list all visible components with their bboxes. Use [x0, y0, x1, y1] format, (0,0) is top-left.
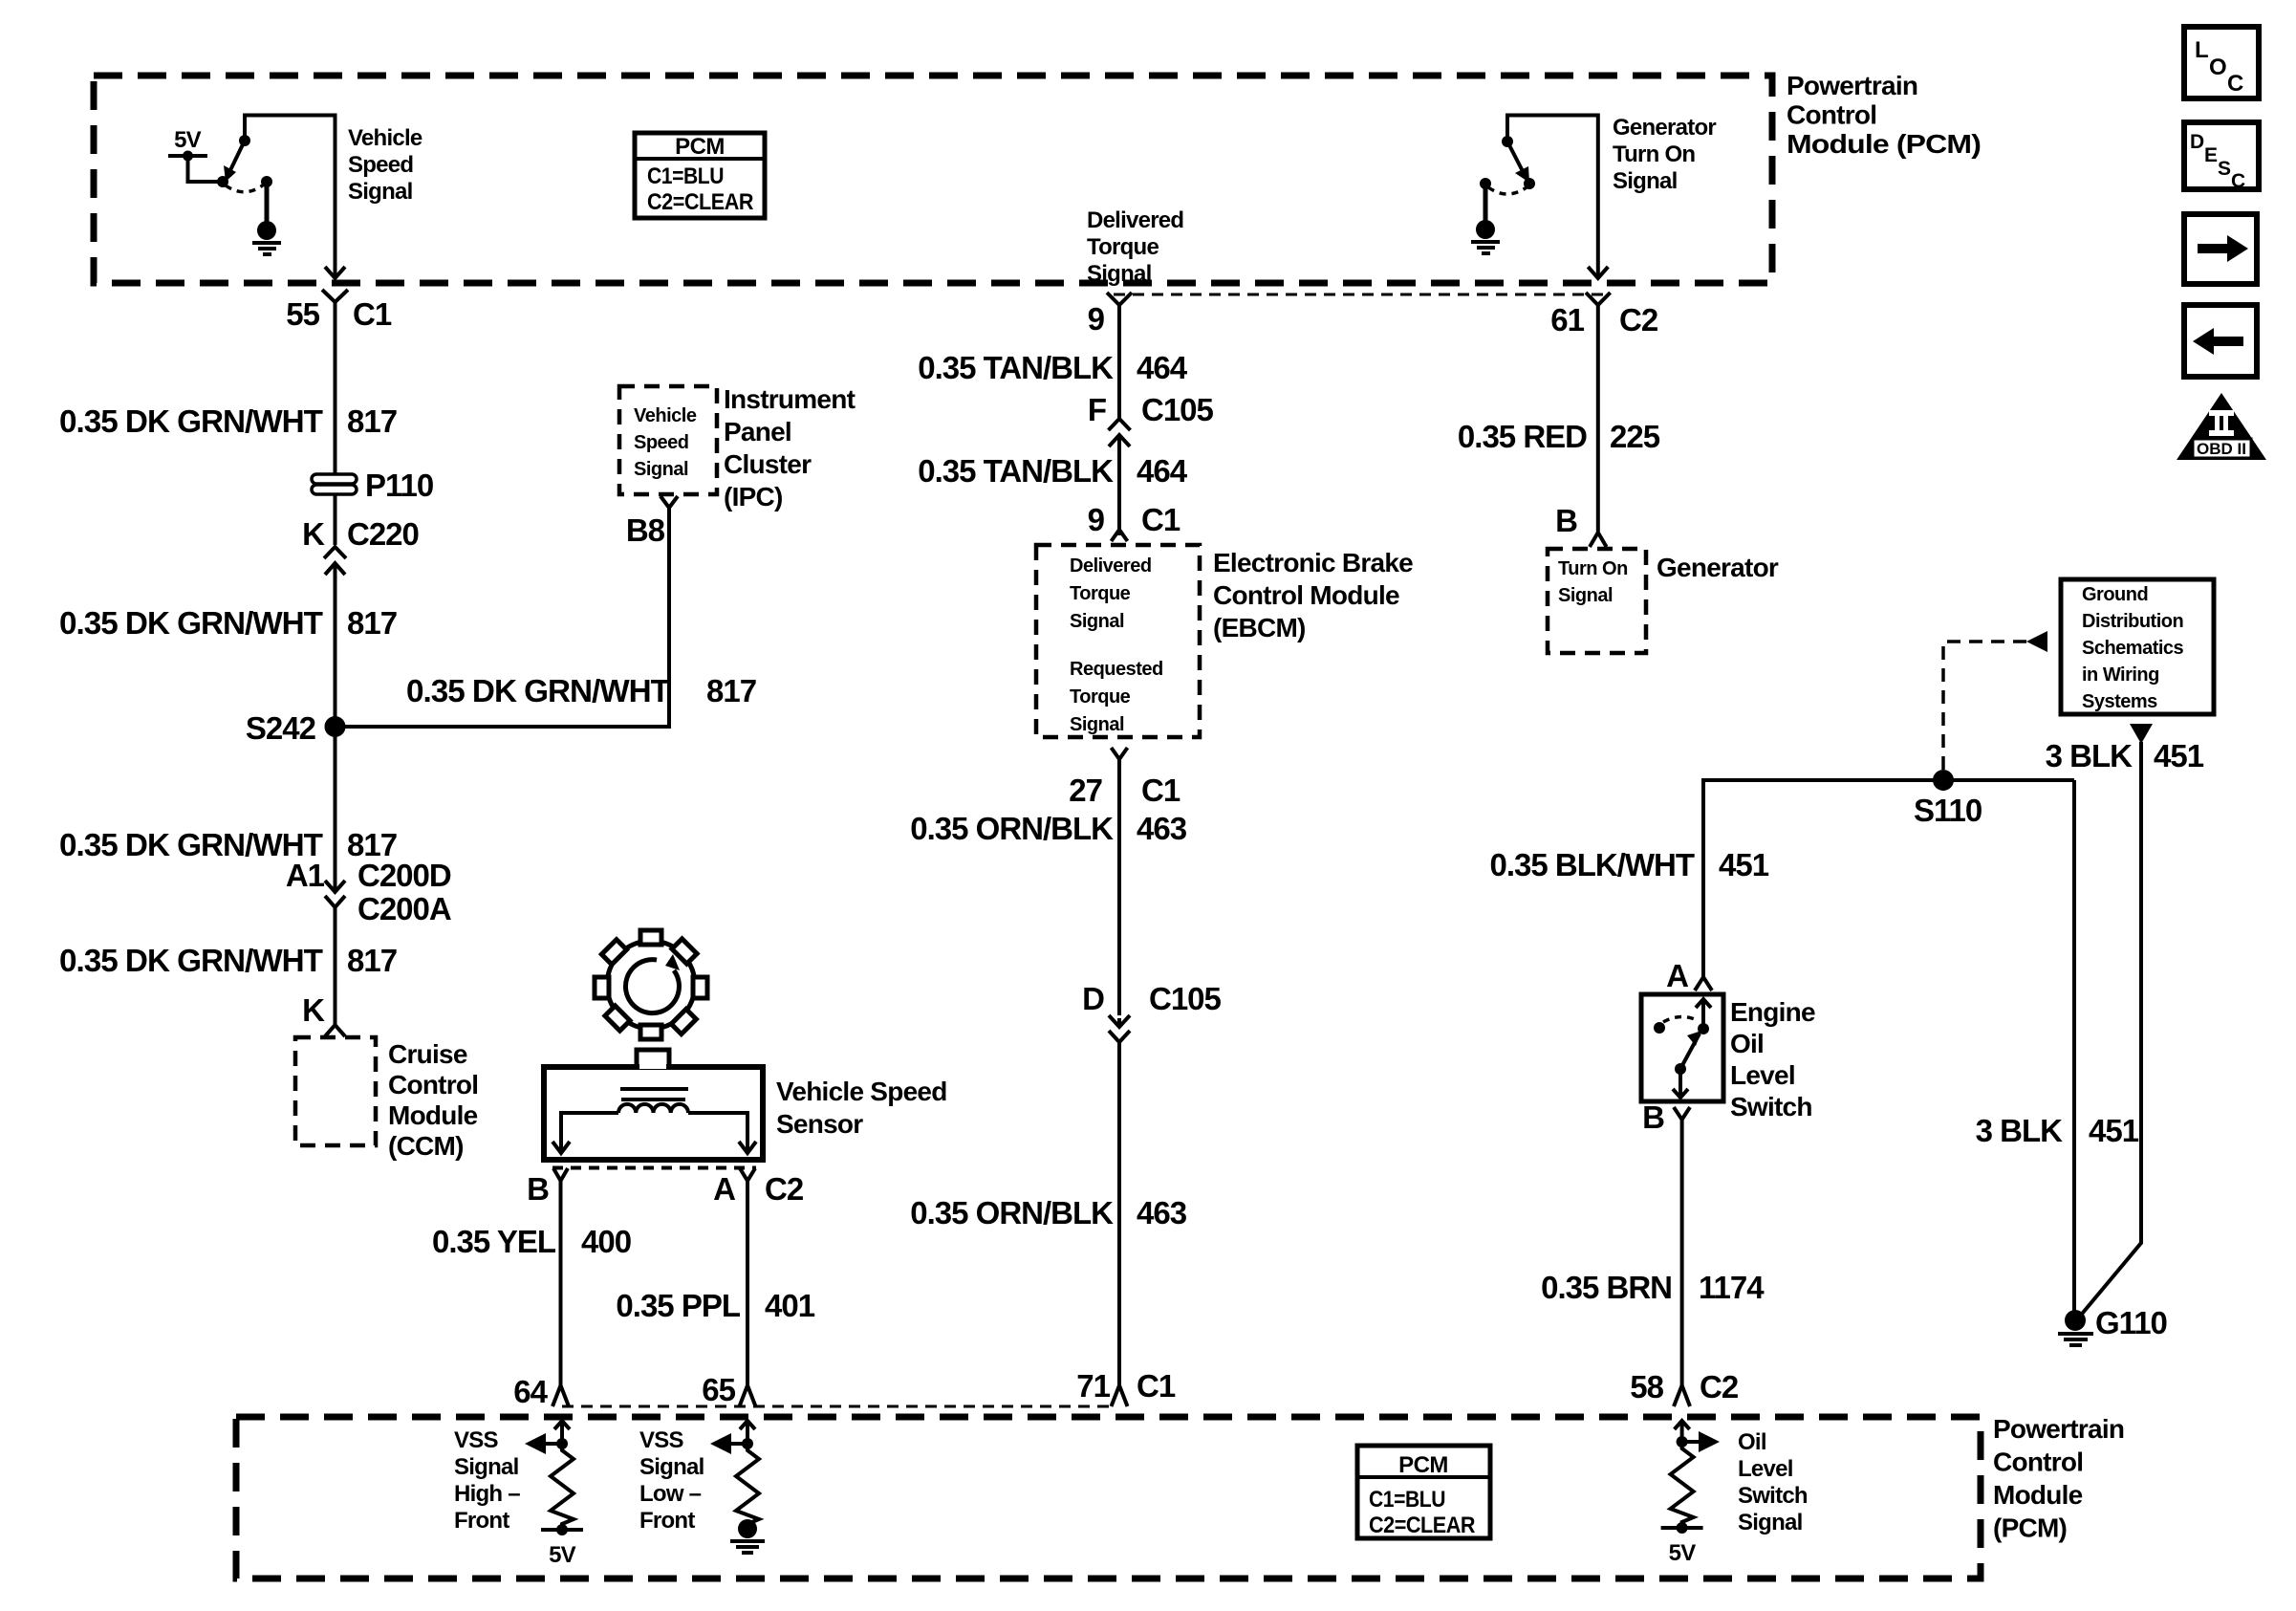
sensor internal wires with arrows — [552, 1113, 756, 1153]
grommet P110 — [312, 468, 433, 503]
5V reference (64) — [541, 1524, 583, 1568]
svg-text:0.35 RED: 0.35 RED — [1458, 419, 1587, 454]
svg-text:451: 451 — [2154, 738, 2204, 773]
svg-text:0.35 DK GRN/WHT: 0.35 DK GRN/WHT — [59, 943, 323, 978]
svg-text:400: 400 — [581, 1224, 631, 1259]
ground (VSS low) — [730, 1519, 765, 1553]
svg-text:VehicleSpeedSignal: VehicleSpeedSignal — [348, 125, 422, 205]
icon left-arrow button — [2184, 305, 2257, 377]
svg-text:3 BLK: 3 BLK — [2046, 738, 2134, 773]
svg-text:64: 64 — [513, 1374, 548, 1409]
svg-text:C2: C2 — [1619, 302, 1658, 337]
svg-text:C220: C220 — [347, 516, 419, 552]
svg-text:9: 9 — [1088, 301, 1105, 337]
svg-text:463: 463 — [1137, 1195, 1187, 1230]
svg-text:225: 225 — [1610, 419, 1660, 454]
connector fork B8 — [661, 496, 678, 508]
connector fork 27/C1 (EBCM bottom) — [1112, 748, 1128, 759]
wire 817 segment 5 — [334, 905, 337, 1025]
connector fork 9 (PCM) — [1107, 293, 1132, 305]
PCM top dashed box — [94, 76, 1772, 283]
svg-text:E: E — [2204, 144, 2218, 166]
svg-text:C: C — [2227, 71, 2243, 97]
wire 1174 — [1680, 1120, 1684, 1385]
svg-text:0.35 PPL: 0.35 PPL — [616, 1288, 740, 1323]
svg-text:D: D — [2190, 131, 2204, 153]
wire 817 segment 2 — [334, 494, 337, 545]
wire 817 segment 4 — [334, 727, 337, 892]
svg-text:K: K — [302, 516, 325, 552]
svg-text:C1: C1 — [353, 296, 392, 332]
PCM bottom dashed box — [236, 1417, 1981, 1578]
ground (inside PCM, right switch) — [1471, 184, 1500, 253]
gear wheel icon — [573, 906, 729, 1063]
wire 463 segment 1 — [1117, 759, 1121, 1015]
pin 58 input: arrow and pull-down resistor — [1675, 1421, 1720, 1452]
EBCM dashed box — [1036, 545, 1200, 737]
svg-text:C105: C105 — [1149, 981, 1222, 1016]
icon OBD II symbol — [2177, 393, 2266, 460]
oil level switch internals — [1654, 999, 1711, 1098]
svg-text:0.35 DK GRN/WHT: 0.35 DK GRN/WHT — [59, 403, 323, 439]
svg-text:C: C — [2231, 170, 2245, 192]
Vehicle Speed Sensor box — [544, 1050, 763, 1160]
svg-text:OBD II: OBD II — [2197, 440, 2246, 458]
svg-text:5V: 5V — [549, 1542, 576, 1568]
ground (inside PCM, left switch) — [252, 182, 281, 254]
icon right-arrow button — [2184, 214, 2257, 284]
connector fork B (VSS) — [553, 1168, 568, 1181]
svg-text:S110: S110 — [1914, 793, 1982, 828]
svg-text:401: 401 — [765, 1288, 815, 1323]
wire 464 segment 1 — [1117, 305, 1121, 419]
svg-text:0.35 ORN/BLK: 0.35 ORN/BLK — [910, 811, 1114, 846]
ground G110 — [2058, 1305, 2167, 1345]
svg-text:27: 27 — [1069, 773, 1102, 808]
svg-text:B: B — [1642, 1099, 1664, 1135]
svg-text:S242: S242 — [246, 710, 316, 746]
svg-text:O: O — [2209, 54, 2227, 80]
Generator Turn On Signal dashed box — [1548, 549, 1646, 653]
dashed reference wire to Ground Distribution — [1943, 642, 2026, 770]
resistor R (VSS high) — [551, 1444, 574, 1530]
splice S242 — [325, 716, 346, 737]
connector fork 65 — [740, 1385, 756, 1406]
svg-text:3 BLK: 3 BLK — [1976, 1113, 2064, 1148]
svg-text:1174: 1174 — [1699, 1270, 1765, 1305]
svg-text:0.35 BRN: 0.35 BRN — [1541, 1270, 1672, 1305]
svg-text:C1: C1 — [1137, 1368, 1176, 1404]
svg-text:C2=CLEAR: C2=CLEAR — [1369, 1513, 1475, 1538]
svg-text:0.35 ORN/BLK: 0.35 ORN/BLK — [910, 1195, 1114, 1230]
svg-text:P110: P110 — [365, 468, 433, 503]
svg-text:G110: G110 — [2095, 1305, 2167, 1340]
svg-text:S: S — [2218, 158, 2231, 180]
svg-text:C2=CLEAR: C2=CLEAR — [647, 189, 753, 215]
svg-text:0.35 TAN/BLK: 0.35 TAN/BLK — [918, 350, 1114, 385]
svg-text:0.35 DK GRN/WHT: 0.35 DK GRN/WHT — [59, 605, 323, 641]
switch SW1 vehicle speed signal — [217, 135, 272, 192]
svg-text:0.35 BLK/WHT: 0.35 BLK/WHT — [1489, 847, 1694, 882]
connector C220 pin K (inline, arrow up into chevron) — [302, 516, 419, 575]
wire 451 (S110 down to G110) — [2072, 780, 2076, 1317]
svg-text:61: 61 — [1550, 302, 1584, 337]
5V reference (58) — [1661, 1522, 1703, 1566]
resistor R (VSS low) — [736, 1444, 759, 1524]
resistor R (oil level) — [1671, 1442, 1694, 1528]
svg-text:55: 55 — [286, 296, 319, 332]
connector fork 55/C1 — [322, 290, 348, 302]
svg-text:817: 817 — [347, 943, 397, 978]
wire 451 (from Ground Distribution box to G110) — [2078, 742, 2141, 1318]
sensor connector dashed line — [552, 1166, 756, 1170]
connector fork 61/C2 (PCM) — [1586, 293, 1611, 305]
svg-text:817: 817 — [347, 403, 397, 439]
svg-text:C2: C2 — [1700, 1369, 1739, 1404]
wire: oil level switch A to S110 — [1703, 780, 2074, 976]
svg-text:5V: 5V — [174, 127, 202, 153]
svg-text:A: A — [1666, 958, 1688, 993]
svg-text:VehicleSpeedSignal: VehicleSpeedSignal — [634, 405, 697, 480]
sensor core lines — [620, 1087, 688, 1091]
wire 225 — [1596, 305, 1600, 532]
svg-text:B: B — [527, 1171, 549, 1207]
svg-text:C1: C1 — [1141, 502, 1180, 537]
svg-text:71: 71 — [1076, 1368, 1110, 1404]
svg-text:0.35 DK GRN/WHT: 0.35 DK GRN/WHT — [406, 673, 670, 708]
wire 464 segment 2 — [1117, 444, 1121, 529]
svg-text:C200A: C200A — [357, 891, 451, 926]
svg-text:PCM: PCM — [1398, 1452, 1448, 1478]
svg-text:F: F — [1088, 392, 1106, 427]
svg-text:K: K — [302, 992, 325, 1028]
bottom connector thin dashed line — [562, 1405, 1111, 1408]
5V supply (left switch) — [168, 127, 221, 182]
CCM dashed box — [295, 1037, 376, 1145]
svg-text:0.35 TAN/BLK: 0.35 TAN/BLK — [918, 453, 1114, 489]
PCM legend box (bottom) — [1357, 1446, 1490, 1538]
wire: switch to PCM pin 61 — [1507, 116, 1608, 279]
svg-text:C1: C1 — [1141, 773, 1180, 808]
svg-text:65: 65 — [702, 1372, 735, 1407]
svg-text:0.35 YEL: 0.35 YEL — [432, 1224, 556, 1259]
wire 463 segment 2 — [1117, 1040, 1121, 1385]
connector fork 71/C1 — [1112, 1385, 1128, 1406]
svg-text:C200D: C200D — [357, 858, 451, 893]
sensor coil L1 — [618, 1104, 688, 1113]
top connector thin dashed line — [1114, 294, 1605, 296]
svg-text:B8: B8 — [626, 512, 665, 548]
svg-text:451: 451 — [1719, 847, 1769, 882]
splice S110 — [1933, 770, 1954, 791]
IPC dashed box — [619, 386, 717, 494]
Engine Oil Level Switch box — [1641, 994, 1723, 1101]
wire 817 segment 3 — [334, 572, 337, 727]
wire: switch to PCM pin 55 — [245, 116, 345, 279]
svg-text:A1: A1 — [286, 858, 325, 893]
svg-text:C2: C2 — [765, 1171, 804, 1207]
svg-text:817: 817 — [347, 605, 397, 641]
svg-text:C1=BLU: C1=BLU — [647, 163, 724, 189]
svg-text:Generator: Generator — [1657, 553, 1779, 582]
wire: S242 branch to IPC B8 — [336, 508, 670, 727]
wire 817 segment 1 — [334, 302, 337, 475]
connector C105 pin D (arrow down into chevron) — [1082, 981, 1221, 1042]
connector fork 58/C2 — [1674, 1385, 1690, 1406]
Ground Distribution Schematics box — [2061, 579, 2214, 714]
svg-text:9: 9 — [1088, 502, 1105, 537]
svg-text:L: L — [2195, 37, 2209, 63]
svg-text:D: D — [1082, 981, 1104, 1016]
wire 401 (A to 65) — [746, 1181, 749, 1385]
wire 400 (B to 64) — [559, 1181, 563, 1385]
connector C105 pin F (arrow up into chevron) — [1088, 392, 1214, 446]
switch SW2 generator turn on — [1480, 136, 1535, 194]
svg-text:58: 58 — [1630, 1369, 1663, 1404]
arrow under Ground Distribution box — [2130, 724, 2153, 744]
connector fork A (VSS) — [740, 1168, 755, 1181]
icon LOC button — [2184, 27, 2259, 98]
svg-text:817: 817 — [706, 673, 756, 708]
svg-text:463: 463 — [1137, 811, 1187, 846]
pin 64 input: arrow and pull-up — [525, 1421, 570, 1454]
svg-text:5V: 5V — [1669, 1540, 1697, 1566]
svg-text:451: 451 — [2089, 1113, 2139, 1148]
svg-text:A: A — [713, 1171, 735, 1207]
svg-text:464: 464 — [1137, 453, 1188, 489]
svg-text:464: 464 — [1137, 350, 1188, 385]
svg-text:C105: C105 — [1141, 392, 1214, 427]
svg-text:PCM: PCM — [675, 134, 725, 160]
icon DESC button — [2184, 122, 2259, 192]
svg-text:C1=BLU: C1=BLU — [1369, 1487, 1445, 1513]
pin 65 input: arrow and pull-down — [710, 1421, 755, 1454]
connector fork 64 — [552, 1385, 569, 1406]
connector C200D/C200A pin A1 (arrow down into chevron) — [286, 858, 451, 926]
svg-text:B: B — [1555, 503, 1577, 538]
svg-text:0.35 DK GRN/WHT: 0.35 DK GRN/WHT — [59, 827, 323, 862]
PCM legend box (top) — [635, 133, 765, 218]
